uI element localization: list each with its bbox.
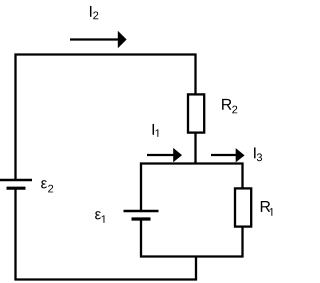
wire inner left upper bbox=[140, 163, 142, 212]
wire outer bottom bbox=[15, 278, 198, 280]
current arrow I3 bbox=[211, 148, 245, 162]
wire inner bottom bbox=[140, 255, 244, 257]
label I1 bbox=[153, 124, 159, 137]
battery E1 bbox=[124, 211, 159, 219]
wire R2 to node bbox=[194, 134, 196, 165]
wire outer left lower bbox=[14, 188, 16, 280]
current arrow I1 bbox=[147, 148, 182, 162]
wire outer top bbox=[15, 53, 197, 55]
wire inner right upper bbox=[241, 163, 243, 189]
wire inner right lower bbox=[241, 228, 243, 258]
resistor R2 bbox=[188, 94, 204, 132]
label I2 bbox=[90, 6, 98, 19]
wire outer left upper bbox=[14, 54, 16, 181]
current arrow I2 bbox=[70, 31, 127, 49]
label R1 bbox=[261, 201, 273, 216]
label epsilon2 bbox=[41, 180, 53, 192]
wire inner left lower bbox=[140, 219, 142, 258]
resistor R1 bbox=[235, 188, 251, 226]
wire right drop to R2 bbox=[194, 54, 196, 95]
battery E2 bbox=[0, 180, 32, 188]
label epsilon1 bbox=[95, 211, 104, 223]
wire inner top bbox=[140, 162, 244, 164]
label I3 bbox=[254, 147, 262, 161]
wire middle connector bbox=[195, 256, 197, 281]
label R2 bbox=[222, 99, 237, 113]
